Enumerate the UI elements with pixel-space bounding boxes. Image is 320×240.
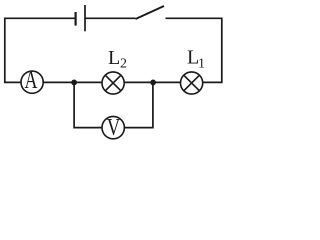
svg-text:A: A bbox=[25, 67, 38, 94]
svg-text:L: L bbox=[108, 47, 120, 69]
svg-text:2: 2 bbox=[120, 56, 127, 71]
svg-text:1: 1 bbox=[198, 56, 205, 71]
svg-text:V: V bbox=[107, 114, 121, 141]
